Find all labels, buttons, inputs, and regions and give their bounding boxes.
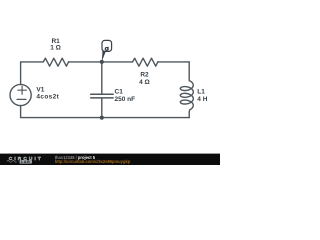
node a balloon box [102,40,112,51]
wire R1 to node a junction [69,61,102,63]
CircuitLab logo LAB tag [20,160,33,164]
V1 plus sign [18,86,26,94]
svg-text:http://circuitlab.com/c/5x2e86: http://circuitlab.com/c/5x2e86pmuygkp [55,159,131,164]
node a label [105,47,108,51]
node a balloon pointer [102,50,106,61]
wire node a to R2 [102,61,133,63]
resistor R1 [43,58,68,66]
inductor L1 [180,62,193,118]
svg-text:4 Ω: 4 Ω [139,79,150,86]
capacitor C1 [91,94,113,98]
wire capacitor branch bottom [101,98,103,118]
svg-text:4 H: 4 H [197,96,207,103]
voltage source V1 [10,84,31,105]
svg-text:L1: L1 [197,89,205,96]
junction node a dot [100,60,104,64]
wire bottom from L1 to V1 [21,106,190,118]
junction bottom dot [100,116,104,120]
svg-text:R2: R2 [140,72,149,79]
svg-text:1 Ω: 1 Ω [50,45,61,52]
V1 minus sign [17,98,26,100]
svg-text:C1: C1 [115,88,124,95]
svg-text:V1: V1 [36,86,44,93]
wire top-left from V1 up and right to R1 [21,62,44,85]
svg-text:4cos2t: 4cos2t [36,94,59,101]
wire R2 to top-right corner [158,61,189,63]
CircuitLab logo wave [7,161,17,163]
resistor R2 [133,58,158,66]
footer bar [0,154,220,165]
svg-text:LAB: LAB [21,159,30,164]
svg-text:250 nF: 250 nF [115,96,136,103]
wire capacitor branch top [101,62,103,94]
